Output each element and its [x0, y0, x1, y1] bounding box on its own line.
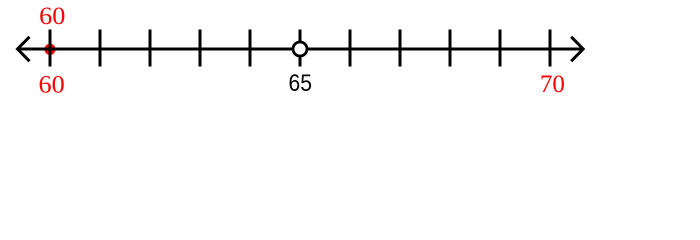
left arrowhead: [18, 37, 30, 61]
tick 61: [99, 30, 102, 67]
tick 67: [399, 30, 402, 67]
red point at 60: [44, 44, 55, 55]
tick 64: [249, 30, 252, 67]
tick 62: [149, 30, 152, 67]
svg-text:60: 60: [39, 71, 65, 98]
tick 65: [299, 30, 302, 67]
open circle at 65: [293, 42, 307, 56]
tick 68: [449, 30, 452, 67]
tick 60: [49, 30, 52, 67]
svg-text:65: 65: [289, 70, 313, 97]
svg-text:70: 70: [540, 71, 565, 98]
tick 69: [499, 30, 502, 67]
tick 66: [349, 30, 352, 67]
svg-text:60: 60: [39, 3, 65, 30]
right arrowhead: [571, 37, 583, 61]
tick 70: [549, 30, 552, 67]
wire main number line: [17, 48, 583, 51]
tick 63: [199, 30, 202, 67]
